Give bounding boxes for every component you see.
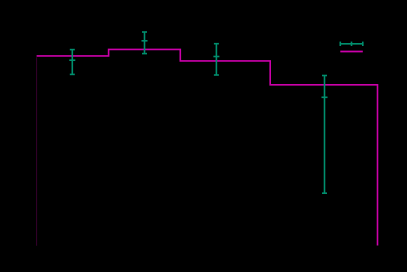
- histogram step line (magenta): [37, 49, 378, 245]
- error bar 3: [213, 44, 219, 75]
- histogram left edge (dim vertical): [36, 57, 38, 246]
- error bar 2: [142, 32, 148, 54]
- legend errorbar sample (green): [340, 42, 363, 46]
- error bar 1: [69, 50, 75, 75]
- legend line sample (magenta): [340, 51, 363, 53]
- error bar 4: [322, 76, 328, 194]
